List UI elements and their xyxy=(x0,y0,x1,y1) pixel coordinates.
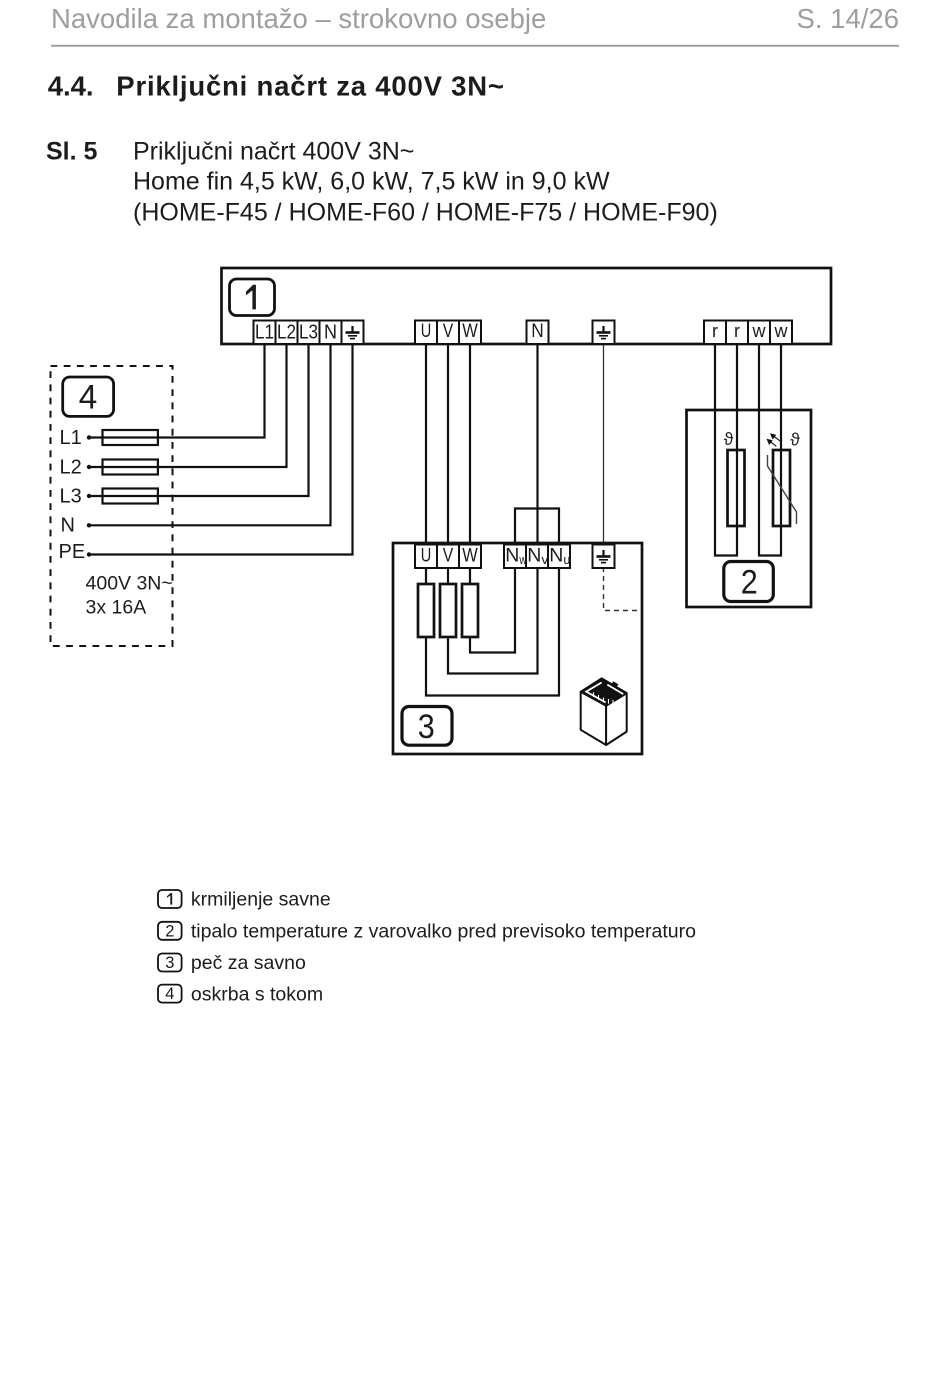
svg-text:400V 3N~: 400V 3N~ xyxy=(86,573,173,595)
svg-text:Sl. 5: Sl. 5 xyxy=(46,138,98,166)
svg-text:ϑ: ϑ xyxy=(790,429,800,449)
svg-text:N: N xyxy=(324,321,337,343)
svg-text:r: r xyxy=(734,321,740,341)
svg-text:V: V xyxy=(443,321,454,342)
svg-text:Priključni načrt za 400V 3N~: Priključni načrt za 400V 3N~ xyxy=(116,71,504,102)
svg-text:2: 2 xyxy=(165,922,174,940)
svg-text:L3: L3 xyxy=(60,485,82,507)
svg-text:U: U xyxy=(421,546,432,567)
svg-text:Home fin 4,5 kW, 6,0 kW, 7,5 k: Home fin 4,5 kW, 6,0 kW, 7,5 kW in 9,0 k… xyxy=(133,168,610,196)
svg-text:2: 2 xyxy=(741,563,758,601)
svg-text:V: V xyxy=(443,546,454,567)
svg-text:S. 14/26: S. 14/26 xyxy=(797,3,899,34)
svg-text:3x 16A: 3x 16A xyxy=(86,597,147,619)
svg-text:L1: L1 xyxy=(255,321,274,343)
svg-text:W: W xyxy=(462,546,478,567)
svg-text:peč za savno: peč za savno xyxy=(191,952,306,974)
svg-text:L2: L2 xyxy=(60,457,82,479)
svg-text:ϑ: ϑ xyxy=(724,429,734,449)
svg-text:krmiljenje savne: krmiljenje savne xyxy=(191,889,331,911)
svg-text:(HOME-F45 / HOME-F60 / HOME-F7: (HOME-F45 / HOME-F60 / HOME-F75 / HOME-F… xyxy=(133,198,718,226)
svg-text:Navodila za montažo – strokovn: Navodila za montažo – strokovno osebje xyxy=(51,3,546,34)
svg-text:tipalo temperature z varovalko: tipalo temperature z varovalko pred prev… xyxy=(191,921,696,943)
svg-text:U: U xyxy=(421,321,432,342)
svg-text:L2: L2 xyxy=(277,321,296,343)
svg-text:L3: L3 xyxy=(299,321,318,343)
svg-text:L1: L1 xyxy=(60,427,82,449)
svg-text:4: 4 xyxy=(79,378,98,416)
svg-text:w: w xyxy=(752,321,767,341)
svg-text:3: 3 xyxy=(165,954,174,972)
svg-text:N: N xyxy=(61,515,75,537)
svg-text:4.4.: 4.4. xyxy=(48,71,94,102)
svg-text:PE: PE xyxy=(59,541,86,563)
svg-text:w: w xyxy=(774,321,789,341)
svg-text:oskrba s tokom: oskrba s tokom xyxy=(191,983,323,1005)
svg-text:4: 4 xyxy=(165,985,174,1003)
svg-text:W: W xyxy=(462,321,478,342)
svg-text:r: r xyxy=(712,321,718,341)
svg-text:Priključni načrt 400V 3N~: Priključni načrt 400V 3N~ xyxy=(133,138,414,166)
svg-text:3: 3 xyxy=(418,708,435,746)
svg-text:N: N xyxy=(531,321,544,342)
